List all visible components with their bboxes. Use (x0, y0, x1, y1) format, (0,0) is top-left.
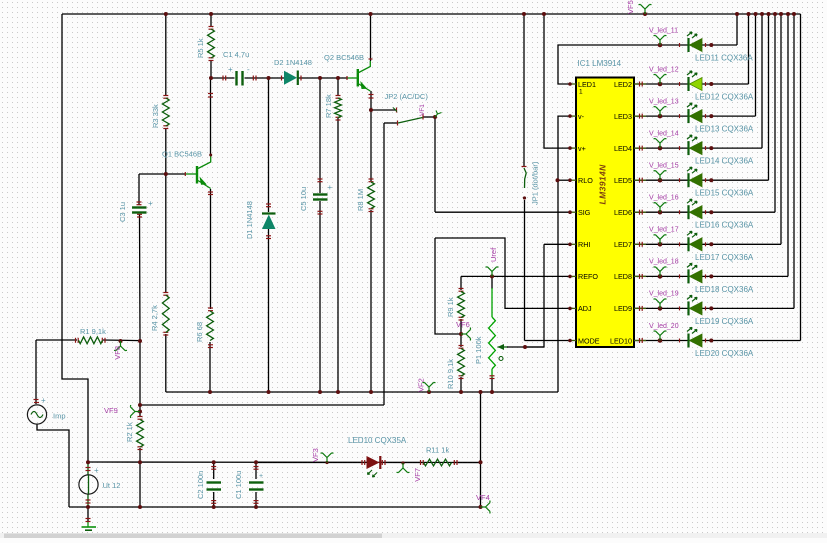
pin tick LED12 anode (705, 82, 707, 86)
wire down to bottom row (139, 462, 141, 507)
wire LED14 cathode bus (761, 14, 763, 148)
wire down to VF9 junction (139, 341, 141, 417)
node bottom row junction x=256 (254, 505, 258, 509)
diode D2 1N4148 (284, 71, 298, 86)
wire wiper junction segment (507, 346, 544, 348)
wire LED13 row (634, 115, 756, 117)
wire JP2 column down to y405 row (383, 123, 385, 405)
wire D2 cathode to Q2 base (298, 77, 348, 79)
LED LED16 CQX36A symbol (687, 199, 702, 219)
transistor Q2 BC546B (348, 61, 371, 91)
svg-text:+: + (94, 466, 99, 475)
pin stub LED8 (634, 275, 646, 277)
node V_led_16 anchor (658, 210, 663, 215)
wire LED17 cathode bus (780, 14, 782, 244)
wire R10 bottom to GND bus (460, 377, 462, 392)
jumper JP2 AC/DC lever (398, 118, 423, 124)
svg-text:R10 9,1k: R10 9,1k (446, 359, 455, 389)
pin tick R4 top (163, 292, 168, 294)
pin tick C1 right b (252, 76, 254, 81)
svg-text:VF4: VF4 (476, 493, 490, 502)
pin stub MODE (570, 340, 576, 342)
source Ut 12 circle (79, 475, 98, 494)
node filter row junction x=88 (86, 460, 90, 464)
LED LED19 CQX36A symbol (687, 295, 702, 315)
svg-text:R8 1M: R8 1M (356, 189, 365, 211)
svg-text:Q1 BC546B: Q1 BC546B (162, 150, 202, 159)
pin stub RHI (570, 243, 576, 245)
node top rail junction x=794 (792, 12, 796, 16)
pin tick LED15 anode (705, 178, 707, 182)
LED LED17 CQX36A symbol (687, 231, 702, 251)
wire C1b top (255, 462, 257, 479)
wire GND bus (166, 391, 558, 393)
wire LED16 row (634, 211, 775, 213)
net flag VF3 symbol (321, 453, 334, 463)
wire Q2 collector up to top rail (370, 14, 372, 61)
pin tick JP2 lever pin (422, 115, 424, 120)
wire JP2 out down to SIG row (434, 117, 436, 212)
wire C5 bottom to GND bus (319, 201, 321, 392)
pin tick LED11 anode (705, 43, 707, 47)
pin tick R6 top (208, 307, 213, 309)
wire LED18 cathode bus (787, 14, 789, 276)
LED LED10 CQX35A symbol (367, 456, 381, 477)
svg-text:ADJ: ADJ (578, 304, 592, 313)
wire JP2 contact B (384, 122, 397, 124)
pin tick LED15 cathode (679, 178, 681, 182)
wire C1 to D2 (245, 77, 285, 79)
net flag VF5 symbol (639, 4, 652, 14)
wire LED20 cathode bus (800, 14, 802, 341)
pin tick R5 top (209, 26, 214, 28)
svg-text:C1 100u: C1 100u (234, 471, 243, 499)
pin tick LED14 cathode (679, 146, 681, 150)
svg-text:R1 9,1k: R1 9,1k (80, 327, 106, 336)
svg-text:LED12 CQX36A: LED12 CQX36A (695, 93, 754, 102)
wire R5 bottom to C1 row (210, 60, 212, 78)
pin stub LED9 (634, 307, 646, 309)
node top rail junction x=165.8 (164, 12, 168, 16)
pin stub v+ (570, 147, 576, 149)
node LED13 cathode node (709, 114, 713, 118)
wire D1 top (268, 78, 270, 212)
wire D1 bottom to GND bus (268, 229, 270, 392)
wire ADJ loop left down to VF6 junction (435, 238, 461, 334)
svg-text:LED13 CQX36A: LED13 CQX36A (695, 125, 754, 134)
wire C3 top to Q1 base row (138, 174, 140, 205)
wire AC/DC return row (140, 404, 384, 406)
wire RLO row (558, 179, 570, 181)
wire RHI down to wiper (525, 244, 544, 347)
node top rail junction x=781 (779, 12, 783, 16)
pin tick LED19 cathode (679, 306, 681, 310)
svg-text:LED10 CQX35A: LED10 CQX35A (348, 436, 407, 445)
wire LED15 cathode bus (768, 14, 770, 180)
node JP2 output junction (433, 115, 437, 119)
wire left rail from top to Imp branch (62, 14, 88, 462)
svg-text:C3 1u: C3 1u (118, 202, 127, 222)
pin tick GND (86, 518, 91, 520)
node V_led_15 anchor (658, 178, 663, 183)
node GND bus junction x=461 (459, 390, 463, 394)
svg-text:LED6: LED6 (614, 208, 632, 217)
svg-text:MODE: MODE (578, 336, 600, 345)
node LED20 cathode node (709, 339, 713, 343)
node filter row junction x=213.7 (212, 460, 216, 464)
scrollbar thumb (4, 534, 382, 539)
pin tick LED16 anode (705, 210, 707, 214)
svg-text:JP2 (AC/DC): JP2 (AC/DC) (385, 92, 429, 101)
node V_led_12 anchor (658, 82, 663, 87)
svg-text:R7 18k: R7 18k (324, 94, 333, 118)
svg-text:LED2: LED2 (614, 80, 632, 89)
wire ADJ loop top (435, 238, 570, 308)
pin dot RHI (568, 243, 572, 247)
node C1 row junction x=211 (209, 76, 213, 80)
pin tick C5 top b (318, 181, 323, 183)
svg-text:V_led_15: V_led_15 (649, 163, 679, 170)
wire C1b bottom (255, 492, 257, 507)
node V_led_19 anchor (658, 306, 663, 311)
pin tick LED5 b (641, 178, 643, 183)
svg-text:C1 4,7u: C1 4,7u (223, 50, 249, 59)
node VF7 anchor (401, 461, 404, 464)
svg-text:Imp: Imp (53, 412, 66, 421)
pin tick C5 bottom (318, 213, 323, 215)
wire C1 row left (211, 77, 235, 79)
net flag VF6 symbol (461, 328, 471, 341)
node C1 row junction x=320 (318, 76, 322, 80)
resistor R6 68 (207, 311, 214, 341)
pin tick R11 left (420, 460, 422, 465)
wire R9 bottom (460, 319, 462, 334)
pin tick LED6 a (639, 210, 641, 215)
svg-text:V_led_20: V_led_20 (649, 323, 679, 330)
pin tick Q1 base (184, 172, 186, 176)
svg-text:+: + (148, 199, 153, 208)
pin tick C3 top b (137, 204, 142, 206)
pin tick LED4 b (641, 146, 643, 151)
wire JP2 contact A (371, 109, 396, 111)
resistor R3 33k (162, 98, 169, 126)
node GND bus junction x=371 (369, 390, 373, 394)
pin tick LED10 cathode b (381, 460, 383, 465)
pin tick R1 left (75, 338, 77, 343)
svg-text:LED8: LED8 (614, 272, 632, 281)
pin tick Q2 collector (369, 58, 373, 60)
svg-text:LED14 CQX36A: LED14 CQX36A (695, 157, 754, 166)
ground symbol (82, 527, 97, 530)
pin tick JP1 top (522, 166, 527, 168)
svg-text:LED17 CQX36A: LED17 CQX36A (695, 253, 754, 262)
net flag V_led_20 symbol (654, 331, 667, 341)
wire R3 top (165, 14, 167, 96)
svg-text:C2 100n: C2 100n (196, 471, 205, 499)
svg-text:LED19 CQX36A: LED19 CQX36A (695, 317, 754, 326)
wire R10 top (460, 334, 462, 347)
capacitor C2 100n plates (207, 483, 222, 490)
node GND bus junction x=480.5 (479, 390, 483, 394)
pin tick R8 top b (369, 181, 374, 183)
node top rail junction x=737 (735, 12, 739, 16)
pin stub LED5 (634, 179, 646, 181)
pin tick LED18 anode (705, 274, 707, 278)
svg-text:V_led_11: V_led_11 (649, 27, 678, 34)
pin tick JP2 A end (396, 108, 398, 113)
node top rail junction x=775 (773, 12, 777, 16)
wire P1 top green lead (491, 288, 493, 317)
resistor R9 1k (458, 292, 465, 318)
node V_led_14 anchor (658, 146, 663, 151)
diode D1 1N4148 (262, 214, 276, 230)
wire R3 bottom to Q1 base row (165, 128, 167, 174)
svg-text:LED5: LED5 (614, 176, 632, 185)
source Imp circle (27, 405, 46, 424)
svg-text:VF8: VF8 (113, 346, 122, 360)
node GND bus junction x=338 (336, 390, 340, 394)
svg-text:LED11 CQX36A: LED11 CQX36A (695, 54, 753, 63)
wire Q1 emitter down to R6 (210, 189, 212, 309)
pin tick C3 bottom (137, 216, 142, 218)
LED LED18 CQX36A symbol (687, 263, 702, 283)
pin tick R6 bottom (208, 347, 213, 349)
node V_led_20 anchor (658, 338, 663, 343)
pin dot ADJ (568, 307, 572, 311)
svg-text:R11 1k: R11 1k (426, 446, 449, 455)
pin tick C5 top (318, 178, 323, 180)
svg-text:VF3: VF3 (311, 448, 320, 462)
node VF9 row junction (138, 403, 142, 407)
pin stub LED1 (570, 83, 576, 85)
svg-text:LED10: LED10 (610, 336, 632, 345)
pin tick R5 bottom (209, 60, 214, 62)
pin tick LED2 b (641, 82, 643, 87)
wire C3 bottom down to R1 row (139, 214, 142, 341)
pin dot MODE (568, 339, 572, 343)
svg-text:+: + (41, 396, 46, 405)
resistor R2 1k (137, 420, 144, 448)
svg-text:V_led_18: V_led_18 (649, 259, 679, 266)
pin tick R1 right b (101, 338, 103, 343)
svg-text:R6 68: R6 68 (195, 322, 204, 342)
node C1 row junction x=268.5 (267, 76, 271, 80)
resistor R11 1k (424, 459, 452, 466)
pin tick R5 bottom b (209, 57, 214, 59)
pin tick LED5 a (639, 178, 641, 183)
resistor R5 1k (208, 29, 215, 58)
svg-text:D1 1N4148: D1 1N4148 (245, 201, 254, 239)
pin tick LED3 b (641, 114, 643, 119)
node LED11 cathode node (709, 43, 713, 47)
pin tick C5 bottom b (318, 210, 323, 212)
pin tick Imp plus 2 (34, 402, 39, 404)
svg-text:LED3: LED3 (614, 112, 632, 121)
capacitor C3 1u plates (132, 208, 147, 213)
node filter row junction x=140 (138, 460, 142, 464)
net flag Uref symbol (486, 267, 499, 277)
pin tick C2 top b (211, 468, 216, 470)
wire R11 right (453, 462, 481, 464)
svg-text:+: + (259, 473, 263, 480)
pin tick R3 top b (163, 97, 168, 99)
svg-text:VF7: VF7 (413, 468, 422, 482)
wire C2 bottom (213, 492, 215, 507)
node filter row junction x=480.5 (479, 460, 483, 464)
wire JP1 bottom down to MODE corner (524, 200, 526, 341)
jumper JP2 contact tick (393, 108, 397, 112)
pin tick LED14 anode (705, 146, 707, 150)
pin tick Imp plus (34, 399, 39, 401)
node VF6 junction (459, 332, 463, 336)
pin tick R4 bottom b (163, 331, 168, 333)
scrollbar track (0, 533, 827, 538)
svg-text:1: 1 (579, 89, 583, 96)
wire LED14 row (634, 147, 762, 149)
svg-text:P1 100k: P1 100k (474, 336, 483, 364)
potentiometer P1 100k element (489, 317, 496, 369)
pin tick LED13 anode (705, 114, 707, 118)
pin tick R10 bottom b (459, 375, 464, 377)
pin tick LED2 a (639, 82, 641, 87)
node top rail junction x=755.5 (754, 12, 758, 16)
resistor R8 1M (368, 182, 375, 209)
svg-text:LED1: LED1 (578, 80, 596, 89)
wire Q2 emitter down (370, 91, 372, 110)
pin tick R5 top b (209, 28, 214, 30)
node V_led_11 anchor (658, 43, 663, 48)
net flag VF2 symbol (423, 382, 436, 392)
pin stub LED4 (634, 147, 646, 149)
pin tick Ut12 plus (86, 467, 91, 469)
pin tick C3 top (137, 201, 142, 203)
pin tick D1 bottom b (266, 235, 271, 237)
pin tick R8 top (369, 178, 374, 180)
pin tick D2 cathode (300, 76, 302, 81)
wire R6 bottom to GND bus (209, 342, 211, 392)
pin stub LED2 (634, 83, 646, 85)
node C1 row junction x=338 (336, 76, 340, 80)
wire LED17 row (634, 243, 781, 245)
pin tick R1 right (104, 338, 106, 343)
wire R1 row left (36, 339, 77, 341)
pin stub REFO (570, 275, 576, 277)
node bottom row junction x=213.7 (212, 505, 216, 509)
wire Q1 base row (139, 173, 186, 175)
pin stub v- (570, 115, 576, 117)
svg-text:JP1 (dot/bar): JP1 (dot/bar) (531, 161, 540, 205)
svg-text:-: - (247, 65, 250, 74)
pin tick C1b bottom (254, 502, 259, 504)
pin tick LED17 cathode (679, 242, 681, 246)
pin tick C2 bottom b (211, 500, 216, 502)
pin tick R2 bottom b (138, 446, 143, 448)
node RLO junction (556, 178, 560, 182)
pin tick C1b bottom b (254, 500, 259, 502)
net flag VF7 symbol (397, 463, 410, 473)
pin tick D1 bottom (266, 238, 271, 240)
node LED15 cathode node (709, 178, 713, 182)
pin tick LED16 cathode (679, 210, 681, 214)
wire LED19 row (634, 307, 794, 309)
pin tick C2 top (211, 466, 216, 468)
node LED18 cathode node (709, 274, 713, 278)
resistor R1 9,1k (79, 337, 103, 344)
pin stub RLO (570, 179, 576, 181)
pin dot REFO (568, 275, 572, 279)
pin tick P1 bottom b (490, 375, 495, 377)
pin tick R7 top (336, 95, 341, 97)
wire Ut12 plus (87, 462, 89, 475)
svg-text:V_led_19: V_led_19 (649, 291, 679, 298)
potentiometer P1 wiper arrow (498, 344, 505, 350)
wire P1 bottom green lead (491, 369, 493, 378)
resistor R7 18k (335, 98, 342, 118)
pin tick JP2 B end (397, 121, 399, 126)
node Q2 emitter junction (369, 108, 373, 112)
wire R9 top from REFO row (460, 276, 462, 290)
pin stub LED6 (634, 211, 646, 213)
node LED12 cathode node (709, 82, 713, 86)
wire R2 bottom to C row (139, 448, 141, 462)
pin tick R9 top (459, 288, 464, 290)
node Q1 base junction (164, 172, 168, 176)
pin tick R7 top b (336, 97, 341, 99)
LED LED15 CQX36A symbol (687, 167, 702, 187)
svg-text:R9 1k: R9 1k (446, 297, 455, 317)
pin tick Ut12 minus (86, 499, 91, 501)
wire R8 bottom to GND bus (370, 210, 372, 392)
pin tick R7 bottom (336, 119, 341, 121)
LED LED13 CQX36A symbol (687, 103, 702, 123)
pin tick C1b top (254, 466, 259, 468)
resistor R4 2,7k (162, 295, 169, 333)
net flag V_led_19 symbol (654, 299, 667, 309)
pin tick Q1 emitter 2 (208, 194, 213, 196)
capacitor C1 100u plates (249, 483, 264, 490)
capacitor C5 10u plates (313, 195, 328, 200)
svg-text:R5 1k: R5 1k (196, 38, 205, 58)
pin tick Ut12 minus 2 (86, 502, 91, 504)
svg-text:LED9: LED9 (614, 304, 632, 313)
wire R11 branch down (480, 392, 482, 507)
pin dot SIG (568, 210, 572, 214)
net flag VF9 symbol (130, 405, 140, 418)
pin tick Q2 emitter (369, 94, 374, 96)
node LED16 cathode node (709, 210, 713, 214)
svg-text:Ut 12: Ut 12 (103, 481, 121, 490)
pin tick C1 left b (225, 76, 227, 81)
node top rail junction x=544 (542, 12, 546, 16)
wire net V+ top rail (62, 13, 801, 15)
pin tick GND 2 (86, 521, 91, 523)
wire R4 bottom to GND bus (165, 334, 167, 392)
pin tick R9 bottom (459, 319, 464, 321)
net flag VF4 symbol (481, 501, 491, 514)
wire Imp minus to bottom row (37, 425, 69, 508)
LED LED11 CQX36A symbol (687, 32, 702, 52)
LED LED14 CQX36A symbol (687, 135, 702, 155)
wire RHI row (544, 243, 570, 245)
pin tick LED20 cathode (679, 339, 681, 343)
pin tick LED18 cathode (679, 274, 681, 278)
svg-text:IC1 LM3914: IC1 LM3914 (578, 59, 622, 68)
pin tick LED9 b (641, 306, 643, 311)
pin stub ADJ (570, 307, 576, 309)
pin tick LED7 b (641, 242, 643, 247)
net flag V_led_18 symbol (654, 267, 667, 277)
pin tick Q2 emitter 2 (369, 97, 374, 99)
